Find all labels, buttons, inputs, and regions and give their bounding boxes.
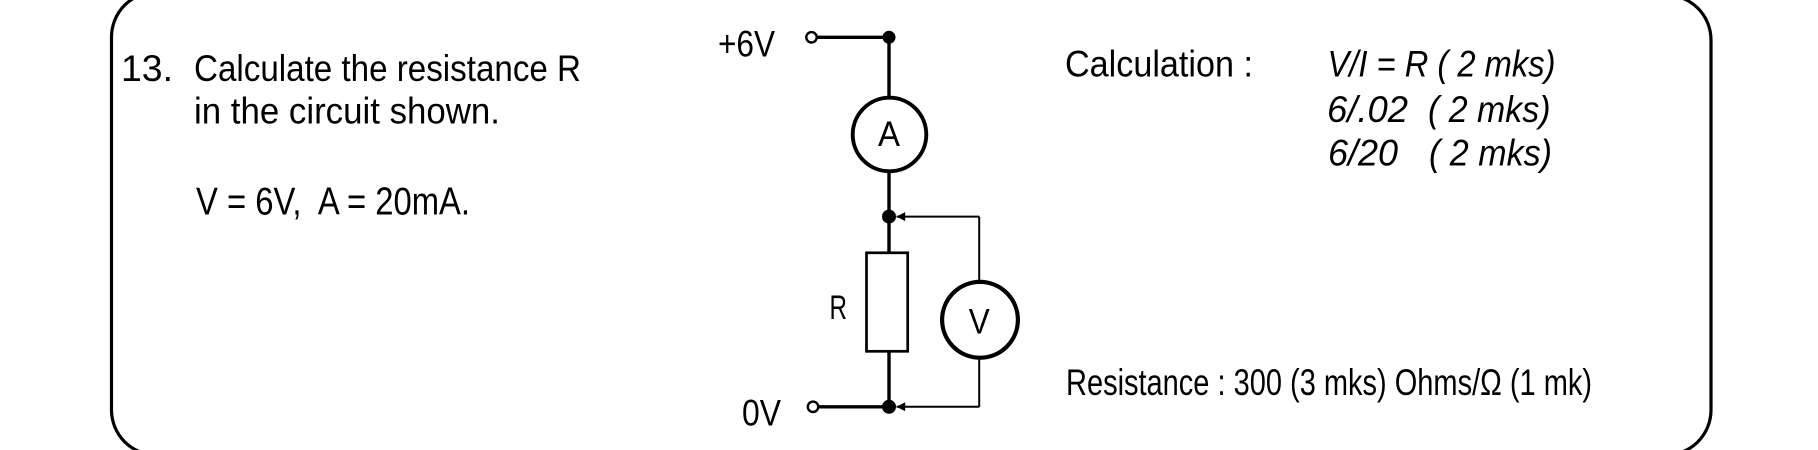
- wire: +6V terminal to top node: [817, 36, 889, 39]
- wire: mid node to resistor top: [887, 217, 890, 253]
- terminal +6V (open circle): [806, 32, 816, 42]
- arrowhead into bottom node: [896, 402, 905, 411]
- wire: voltmeter bottom branch vertical: [978, 358, 980, 407]
- svg-text:A: A: [878, 115, 901, 154]
- svg-text:Resistance : 300 (3 mks) Ohms/: Resistance : 300 (3 mks) Ohms/Ω (1 mk): [1066, 362, 1592, 403]
- wire: voltmeter top branch horizontal: [897, 216, 980, 218]
- node: top junction dot: [883, 31, 896, 44]
- svg-text:6/.02: 6/.02: [1327, 89, 1408, 130]
- svg-text:V: V: [969, 302, 991, 341]
- wire: 0V terminal to bottom node: [819, 405, 889, 408]
- svg-text:Calculation :: Calculation :: [1065, 44, 1253, 85]
- svg-text:13.: 13.: [121, 48, 173, 89]
- node: bottom junction dot: [882, 400, 896, 414]
- svg-text:+6V: +6V: [718, 24, 775, 65]
- ammeter A1 circle: [853, 98, 927, 172]
- arrowhead into mid node: [896, 212, 905, 221]
- resistor R body: [867, 253, 908, 351]
- svg-text:( 2 mks): ( 2 mks): [1428, 89, 1551, 130]
- svg-text:6/20: 6/20: [1328, 133, 1398, 174]
- svg-text:Calculate the resistance R: Calculate the resistance R: [194, 48, 581, 89]
- wire: resistor bottom to bottom node: [887, 351, 890, 407]
- wire: ammeter to mid node: [887, 172, 890, 217]
- svg-text:V = 6V, A = 20mA.: V = 6V, A = 20mA.: [196, 181, 470, 224]
- voltmeter V1 circle: [942, 282, 1018, 358]
- svg-text:0V: 0V: [742, 393, 781, 434]
- wire: top node down to ammeter: [887, 37, 890, 98]
- wire: voltmeter top branch vertical: [978, 217, 980, 282]
- wire: voltmeter bottom branch horizontal: [897, 406, 980, 408]
- svg-text:in the circuit shown.: in the circuit shown.: [194, 91, 500, 132]
- svg-text:R: R: [830, 289, 848, 327]
- svg-text:( 2 mks): ( 2 mks): [1429, 133, 1552, 174]
- node: mid junction dot: [882, 210, 896, 224]
- svg-text:V/I = R ( 2 mks): V/I = R ( 2 mks): [1328, 43, 1556, 84]
- terminal 0V (open circle): [808, 402, 818, 412]
